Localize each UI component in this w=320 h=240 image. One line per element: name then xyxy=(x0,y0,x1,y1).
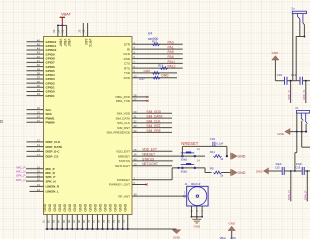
svg-text:DBG_TXD: DBG_TXD xyxy=(116,99,131,103)
svg-text:SIM_PRE: SIM_PRE xyxy=(146,129,161,133)
svg-text:GND: GND xyxy=(161,74,169,78)
svg-text:GND: GND xyxy=(93,203,97,211)
svg-text:DISP_D-C: DISP_D-C xyxy=(46,150,61,154)
svg-text:DISP_CLK: DISP_CLK xyxy=(46,140,62,144)
svg-text:SIM_DATA: SIM_DATA xyxy=(115,116,130,120)
svg-text:MIC_N: MIC_N xyxy=(302,90,306,99)
svg-text:ADC: ADC xyxy=(84,39,88,46)
svg-text:NRESET: NRESET xyxy=(118,154,130,158)
svg-text:SIM_VDD: SIM_VDD xyxy=(146,110,161,114)
svg-text:GND: GND xyxy=(98,203,102,211)
svg-text:NRESET: NRESET xyxy=(142,153,155,157)
svg-text:VBAT: VBAT xyxy=(63,39,67,47)
svg-text:TXD: TXD xyxy=(124,71,131,75)
svg-text:RI: RI xyxy=(127,47,130,51)
svg-text:GND: GND xyxy=(272,51,280,55)
svg-text:GND: GND xyxy=(228,221,236,225)
svg-text:sim900: sim900 xyxy=(148,37,159,41)
svg-text:DISP_DATE: DISP_DATE xyxy=(46,145,63,149)
svg-text:NRESET: NRESET xyxy=(181,141,198,146)
svg-text:33pF: 33pF xyxy=(275,162,282,166)
svg-text:C21: C21 xyxy=(291,73,297,77)
svg-text:GSM: GSM xyxy=(144,69,151,73)
svg-text:30kΩ: 30kΩ xyxy=(181,158,189,162)
svg-text:2n: 2n xyxy=(295,106,299,110)
svg-text:PA11: PA11 xyxy=(168,60,176,64)
svg-text:C16: C16 xyxy=(295,165,300,169)
svg-text:GND: GND xyxy=(124,203,128,211)
svg-text:STATUS: STATUS xyxy=(142,157,154,161)
svg-text:VBAT: VBAT xyxy=(61,12,71,17)
svg-text:SIM_PRESENCE: SIM_PRESENCE xyxy=(106,131,130,135)
svg-text:GND: GND xyxy=(103,203,107,211)
svg-text:R17: R17 xyxy=(140,77,146,81)
svg-text:GND: GND xyxy=(193,225,201,229)
svg-text:GPIO1: GPIO1 xyxy=(46,94,56,98)
svg-text:PA1: PA1 xyxy=(168,45,174,49)
svg-text:R11: R11 xyxy=(210,150,215,154)
svg-text:DISP_CS: DISP_CS xyxy=(46,154,59,158)
svg-text:30kΩ: 30kΩ xyxy=(181,169,189,173)
svg-text:GND: GND xyxy=(43,203,47,211)
svg-text:RF_ANT: RF_ANT xyxy=(118,194,130,198)
svg-text:RXD: RXD xyxy=(124,76,131,80)
svg-text:LINEIN_L: LINEIN_L xyxy=(46,190,60,194)
svg-text:PA12: PA12 xyxy=(168,65,176,69)
svg-text:2n: 2n xyxy=(292,6,296,10)
svg-text:MIC_P: MIC_P xyxy=(287,90,291,99)
svg-text:SIM_DATA: SIM_DATA xyxy=(146,115,163,119)
svg-text:C26: C26 xyxy=(231,236,237,239)
svg-text:SPK_P: SPK_P xyxy=(304,191,308,201)
svg-text:J1: J1 xyxy=(185,182,188,186)
svg-text:33pF: 33pF xyxy=(296,162,303,166)
svg-text:GND: GND xyxy=(58,203,62,211)
svg-text:GND: GND xyxy=(83,203,87,211)
svg-text:RTS: RTS xyxy=(124,66,130,70)
svg-text:SIM_VDD: SIM_VDD xyxy=(117,112,131,116)
svg-text:GND: GND xyxy=(237,171,245,175)
svg-text:NETLIGHT: NETLIGHT xyxy=(115,164,130,168)
svg-text:PWRKEY: PWRKEY xyxy=(117,178,130,182)
svg-text:SPK_N: SPK_N xyxy=(46,179,56,183)
svg-text:GND: GND xyxy=(78,203,82,211)
svg-text:DTR: DTR xyxy=(124,43,131,47)
svg-text:GND: GND xyxy=(109,203,113,211)
svg-text:0.1uF: 0.1uF xyxy=(216,142,223,146)
svg-text:LINEIN_R: LINEIN_R xyxy=(46,185,61,189)
svg-text:U4: U4 xyxy=(148,32,152,36)
svg-text:C19: C19 xyxy=(277,73,283,77)
svg-text:SIM_CLK: SIM_CLK xyxy=(146,119,161,123)
svg-text:GND: GND xyxy=(237,155,245,159)
svg-text:SIM_RST: SIM_RST xyxy=(117,126,130,130)
svg-text:DCD: DCD xyxy=(124,52,131,56)
svg-text:D: D xyxy=(0,119,3,124)
svg-text:C15: C15 xyxy=(275,165,280,169)
svg-text:GND: GND xyxy=(114,203,118,211)
svg-text:SPK_N: SPK_N xyxy=(16,178,26,182)
svg-text:VBAT: VBAT xyxy=(67,39,71,47)
svg-text:GND: GND xyxy=(63,203,67,211)
svg-text:GND: GND xyxy=(88,203,92,211)
svg-text:NETLIGHT: NETLIGHT xyxy=(142,162,158,166)
svg-text:GND: GND xyxy=(256,169,264,173)
svg-text:GND: GND xyxy=(173,235,181,239)
svg-text:VRTC: VRTC xyxy=(88,39,92,48)
svg-text:GND: GND xyxy=(48,203,52,211)
svg-text:PA5: PA5 xyxy=(168,50,174,54)
svg-text:PWM0: PWM0 xyxy=(46,121,55,125)
svg-text:GND: GND xyxy=(53,203,57,211)
svg-text:DSR: DSR xyxy=(124,57,131,61)
svg-text:GND: GND xyxy=(68,203,72,211)
svg-text:GND: GND xyxy=(119,203,123,211)
svg-text:PWRKEY_OUT: PWRKEY_OUT xyxy=(109,183,130,187)
svg-text:CTS: CTS xyxy=(124,62,130,66)
svg-text:SIM_RST: SIM_RST xyxy=(146,124,160,128)
svg-text:SIM_CLK: SIM_CLK xyxy=(117,121,130,125)
svg-text:PA6: PA6 xyxy=(168,55,174,59)
svg-text:GND: GND xyxy=(73,203,77,211)
svg-text:GND: GND xyxy=(277,132,285,136)
svg-text:VDD_EXT: VDD_EXT xyxy=(116,150,130,154)
svg-text:VDD_EXT: VDD_EXT xyxy=(142,148,157,152)
svg-text:00AX-#: 00AX-# xyxy=(191,182,201,186)
svg-text:C18: C18 xyxy=(210,137,216,141)
svg-text:SPK_N: SPK_N xyxy=(287,190,291,200)
svg-text:STATUS: STATUS xyxy=(119,159,130,163)
svg-text:R9: R9 xyxy=(210,166,214,170)
svg-text:VBAT: VBAT xyxy=(59,39,63,47)
svg-text:R14: R14 xyxy=(158,64,164,68)
svg-text:PA3: PA3 xyxy=(168,41,174,45)
svg-text:VBat: VBat xyxy=(220,236,226,239)
